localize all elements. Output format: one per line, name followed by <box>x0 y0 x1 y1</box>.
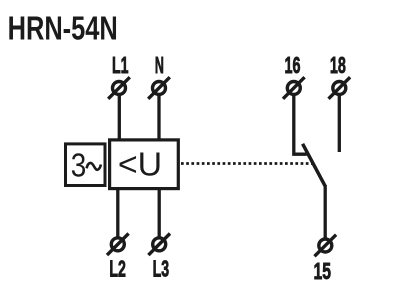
wire 15 <box>324 185 327 239</box>
svg-text:L3: L3 <box>153 256 170 282</box>
terminal L1 <box>108 77 130 99</box>
wire 18 <box>338 96 341 153</box>
label 18 <box>330 52 346 78</box>
svg-text:L2: L2 <box>109 256 126 282</box>
wire N <box>157 96 160 142</box>
wire L1 <box>118 96 121 142</box>
svg-text:16: 16 <box>285 52 301 78</box>
label L3 <box>153 256 170 282</box>
terminal L3 <box>148 234 170 256</box>
svg-text:15: 15 <box>314 258 332 284</box>
dotted control link <box>181 162 314 165</box>
label N <box>155 52 164 78</box>
label L1 <box>112 52 129 78</box>
svg-text:<U: <U <box>118 147 162 184</box>
label 15 <box>314 258 332 284</box>
label U <box>118 147 162 184</box>
label 3~ <box>71 148 101 185</box>
relay contact lever (switch arm 15-16) <box>303 144 326 186</box>
box U (undervoltage monitoring relay) <box>110 140 179 189</box>
box 3~ (three-phase supply block) <box>66 144 106 186</box>
label L2 <box>109 256 126 282</box>
terminal 18 <box>329 77 351 99</box>
terminal 15 <box>315 235 337 257</box>
terminal 16 <box>283 77 305 99</box>
svg-text:18: 18 <box>330 52 346 78</box>
terminal L2 <box>107 234 129 256</box>
svg-text:HRN-54N: HRN-54N <box>8 11 118 48</box>
label 16 <box>285 52 301 78</box>
svg-text:3: 3 <box>71 148 87 185</box>
svg-text:N: N <box>155 52 164 78</box>
wire 16 (with L-bend fixed contact) <box>294 96 307 155</box>
wire L3 <box>158 187 161 237</box>
title HRN-54N <box>8 11 118 48</box>
terminal N <box>148 77 170 99</box>
wire L2 <box>116 187 119 237</box>
svg-text:L1: L1 <box>112 52 129 78</box>
